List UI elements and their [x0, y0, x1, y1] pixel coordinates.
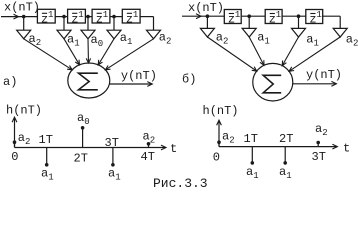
svg-text:y(nT): y(nT)	[121, 69, 157, 83]
svg-text:0: 0	[213, 150, 220, 164]
svg-text:3T: 3T	[105, 136, 119, 150]
svg-text:1: 1	[48, 10, 53, 20]
svg-text:2T: 2T	[279, 132, 293, 146]
svg-text:1: 1	[78, 10, 83, 20]
svg-text:б): б)	[182, 73, 196, 87]
svg-text:y(nT): y(nT)	[306, 68, 342, 82]
svg-text:1T: 1T	[39, 133, 53, 147]
svg-text:t: t	[170, 142, 177, 156]
svg-text:1T: 1T	[244, 132, 258, 146]
svg-text:3T: 3T	[312, 150, 326, 164]
svg-text:1: 1	[276, 10, 281, 20]
svg-text:h(nT): h(nT)	[6, 104, 42, 118]
svg-text:а): а)	[3, 75, 17, 89]
svg-text:2T: 2T	[74, 152, 88, 166]
svg-text:0: 0	[11, 150, 18, 164]
svg-text:h(nT): h(nT)	[203, 104, 239, 118]
svg-text:1: 1	[133, 10, 138, 20]
svg-text:1: 1	[235, 10, 240, 20]
svg-text:x(nT): x(nT)	[188, 1, 224, 15]
svg-text:t: t	[343, 142, 350, 156]
svg-text:1: 1	[103, 10, 108, 20]
svg-text:x(nT): x(nT)	[4, 1, 40, 15]
svg-text:4T: 4T	[141, 150, 155, 164]
svg-text:Рис.3.3: Рис.3.3	[153, 176, 208, 191]
svg-text:1: 1	[316, 10, 321, 20]
